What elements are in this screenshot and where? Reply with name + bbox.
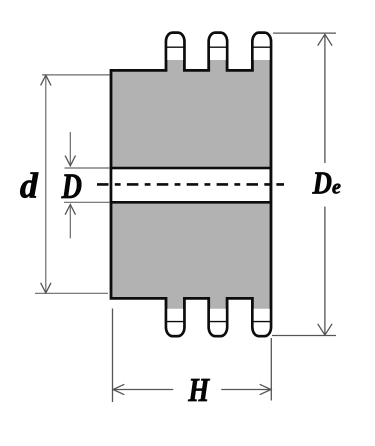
tooth B2 bottom white tip [209,309,227,335]
dimension H: arrow left [113,384,124,394]
dimension d: extension line bottom [35,292,108,294]
sprocket body (castellated cross-section, gray fill) [111,33,271,336]
dimension De: vertical line upper [324,34,326,163]
dimension d: arrow down [41,283,51,293]
bore top line [110,167,272,170]
dimension d: vertical line [45,75,47,293]
dimension D: extension line top [65,167,111,169]
dimension De: extension line top [273,32,336,34]
bore strip (white) [112,169,269,201]
dimension De: arrow up [318,34,332,45]
tooth T1 top white tip [166,34,184,60]
dimension D: arrow up to bore bottom [65,204,75,238]
dimension H: line left segment [113,389,173,391]
dimension H: arrow right [260,384,271,394]
dimension D: extension line bottom [64,201,110,203]
tooth B1 bottom white tip [166,309,184,335]
dimension De: extension line bottom [272,335,336,337]
dimension H: line right segment [221,389,271,391]
tooth T3 top white tip [252,34,271,60]
svg-text:D: D [312,164,332,200]
dimension H: extension line left [112,309,114,403]
svg-text:H: H [188,372,211,409]
svg-text:d: d [20,165,39,205]
svg-text:e: e [332,176,341,198]
label De [312,164,341,200]
dimension d: extension line top [42,74,110,76]
dimension De: arrow down [318,324,332,335]
dimension H: extension line right [270,338,272,401]
dimension d: arrow up [41,75,51,85]
svg-text:D: D [61,166,82,206]
centerline (dash-dot axis) [97,183,284,186]
dimension D: arrow down to bore top [65,132,75,166]
dimension De: vertical line lower [324,207,326,335]
tooth B3 bottom white tip [252,309,271,335]
bore bottom line [110,201,272,204]
tooth T2 top white tip [209,34,227,60]
